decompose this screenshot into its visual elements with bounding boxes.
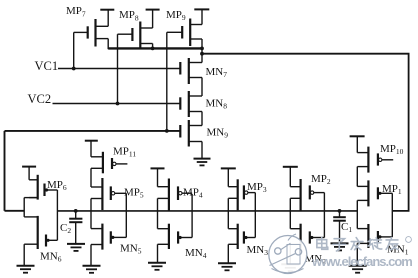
node junction MP8 gate / VC2 [116,102,120,106]
transistor MN8 [180,91,202,117]
ground below MN2 [281,264,299,271]
capacitor C1 [333,211,346,244]
transistor MP11 [91,152,127,174]
wire stage3 drain column through node line [157,198,159,228]
node long wire start on MN7 column [200,52,204,56]
wire stage4 gate vertical [125,193,127,237]
power bar VDD for MP4 [151,167,165,169]
wire MN5 source to ground [90,245,92,266]
wire stage1 gate vertical [323,193,325,238]
wire MP6 drain down / MN6 drain up (stage 5 output) [23,198,25,217]
wire stage4 drain column through node line [90,199,92,229]
power bar VDD for MP7 [100,9,114,11]
transistor MN9 [180,120,202,147]
wire stage2 drain column through node line [227,198,229,228]
wire MN3 source to ground [227,244,229,263]
transistor MP5 [91,178,126,210]
wire MP8 gate down to VC2 [117,34,119,103]
transistor MN5 [91,224,126,250]
ground below MN5 [83,266,101,273]
node C2 junction [74,209,78,213]
svg-text:www.elecfans.com: www.elecfans.com [311,254,412,269]
transistor MP3 [228,179,255,210]
transistor MP9 [167,19,202,47]
power bar VDD for MP9 [194,8,209,10]
wire MP7 drain down to rail [107,39,109,50]
node C1 junction [338,209,342,213]
transistor MN6 [24,216,57,249]
wire MN7 column verticals [201,48,203,62]
wire feedback to first stage output [5,210,25,212]
power bar VDD for MP8 [146,9,160,11]
wire left edge vertical [4,131,6,211]
wire stage2 gate vertical [254,193,256,238]
ground below C2 [67,244,85,251]
wire MP10 source vertical [356,136,358,152]
node junction MP9 gate / bias line [165,129,169,133]
transistor MN1 [357,224,392,248]
node junction MP7 gate / VC1 [72,67,76,71]
wire MP10 drain to MP1 source [356,167,358,187]
wire MP7 source to VDD bar [107,10,109,27]
wire MN2 source to ground [289,244,291,264]
transistor MP6 [29,175,57,200]
svg-text:VC2: VC2 [28,92,52,106]
wire VC2 input line [53,103,181,105]
transistor MP10 [357,147,393,173]
wire MP2 source vertical [289,167,291,187]
wire VC1 input line [58,68,180,70]
transistor MP4 [158,179,193,211]
transistor MP8 [118,22,153,49]
wire MP11 drain to MP5 source [90,168,92,187]
wire MP1 drain down through output node [356,200,358,228]
ground below MN1 [349,266,367,273]
wire MP9 drain down to rail end [201,39,203,48]
wire stage1 drain column through node line [289,198,291,228]
capacitor C2 [69,211,82,244]
wire bias line MN9/MP9 gates to left edge [5,130,181,132]
ground below MN3 [218,263,236,270]
wire drain rail MP7-MP8-MP9 [108,47,202,49]
wire MP7 gate down to VC1 [73,32,75,68]
watermark chinese text row (decorative) [317,237,398,251]
power bar VDD for MP2 [283,166,298,168]
transistor MN2 [290,224,324,249]
wire stage5 gate vertical [56,190,58,240]
wire MP4 source vertical [157,168,159,186]
wire MP3 source vertical [227,168,229,186]
svg-text:VC1: VC1 [35,59,59,73]
wire MN4 source to ground [157,244,159,262]
wire MP9 gate down to bias line [166,32,168,131]
wire MP8 source to VDD bar [152,10,154,28]
wire inverter chain node line [57,210,357,212]
wire stage3 gate vertical [191,194,193,238]
power bar VDD for MP3 [221,167,236,169]
wire MN6 source to ground [23,244,25,266]
power bar VDD for MP6 [22,166,36,168]
transistor MN3 [228,224,255,249]
wire MP9 source to VDD bar [201,9,203,24]
ground below MN9 [194,159,211,166]
wire MP11 source vertical [90,141,92,157]
transistor MP1 [357,180,392,206]
wire long feedback to right edge down to MP10/MP1 gates [202,54,409,211]
wire MN1 source to ground [356,243,358,265]
wire MP6 source vertical [28,167,30,180]
transistor MN7 [180,58,202,84]
power bar VDD for MP11 [85,140,98,142]
transistor MP2 [290,179,324,211]
wire MP1/MN1 gate vertical [391,193,393,237]
transistor MP7 [74,19,109,47]
watermark elecfans seal (decorative) [269,234,307,274]
ground below C1 [331,243,349,250]
power bar VDD for MP10 [350,135,365,137]
node junction MP9 drain / rail [200,47,204,51]
ground below MN4 [148,263,166,270]
wire MP8 drain down to rail [152,44,154,49]
node junction MP8 drain / rail [151,47,155,51]
ground below MN6 [17,266,35,273]
transistor MN4 [158,224,193,249]
